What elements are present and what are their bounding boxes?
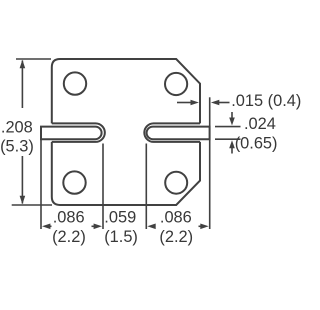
dim .024 extension bottom (215, 138, 241, 140)
body outline (52, 59, 200, 205)
svg-text:.086: .086 (53, 209, 85, 227)
arrowhead .208 down (20, 196, 26, 205)
bottom arrow tails (48, 225, 52, 227)
arrowhead .015 right (at body edge) (191, 100, 199, 106)
right terminal lead (147, 127, 210, 140)
left terminal lead (41, 127, 102, 140)
svg-text:.086: .086 (160, 209, 192, 227)
svg-text:(5.3): (5.3) (0, 137, 34, 155)
hole bottom-right (165, 172, 187, 194)
dim .015 arrow tails (177, 102, 192, 104)
arrowhead bottom left-pointing at x=41.2 (42, 224, 50, 230)
svg-text:(0.65): (0.65) (235, 135, 278, 153)
dim .024 extension top (215, 126, 241, 128)
hole bottom-left (63, 171, 85, 193)
svg-text:.208: .208 (1, 119, 33, 137)
arrowhead .208 up (20, 60, 26, 69)
arrowhead bottom right-pointing at x=209.7 (200, 224, 208, 230)
dim .024 arrow tails (231, 112, 233, 119)
dim .208 extension top (16, 58, 51, 60)
right terminal recess outline (144, 123, 200, 141)
bottom extension x=41.2 (40, 139, 42, 229)
svg-text:(1.5): (1.5) (104, 228, 138, 246)
bottom extension x=103.4 (102, 144, 104, 230)
svg-text:.015 (0.4): .015 (0.4) (231, 92, 301, 110)
svg-text:.059: .059 (104, 209, 136, 227)
arrowhead bottom left-pointing at x=145.9 (147, 224, 155, 230)
svg-text:(2.2): (2.2) (159, 228, 193, 246)
arrowhead .024 down (229, 118, 235, 126)
dim .208 extension bottom (12, 204, 52, 206)
bottom extension x=209.7 (209, 139, 211, 229)
left terminal recess outline (52, 123, 105, 141)
arrowhead .015 left (at extension) (211, 100, 219, 106)
bottom extension x=145.9 (145, 144, 147, 230)
dim .208 line lower (21, 156, 23, 204)
dim .015 extension (209, 97, 211, 126)
hole top-right (165, 73, 187, 95)
svg-text:(2.2): (2.2) (52, 228, 86, 246)
svg-text:.024: .024 (244, 115, 276, 133)
dim .208 line upper (21, 61, 23, 109)
arrowhead .024 up (229, 140, 235, 148)
arrowhead bottom right-pointing at x=103.4 (94, 224, 102, 230)
hole top-left (64, 72, 86, 94)
